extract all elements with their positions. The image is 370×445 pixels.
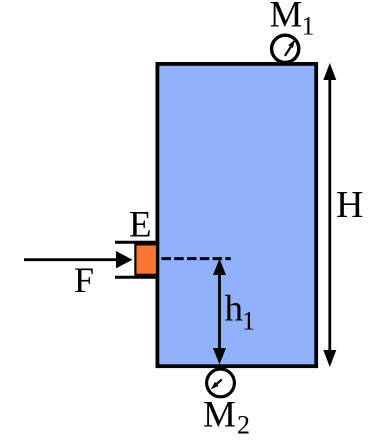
force arrow F (head)	[116, 251, 132, 268]
h1 arrow (shaft)	[218, 270, 221, 353]
svg-text:H: H	[336, 184, 363, 226]
svg-text:M: M	[270, 0, 303, 36]
svg-text:E: E	[129, 205, 152, 246]
gauge M2 needle	[216, 380, 222, 386]
gauge M1 needle	[285, 47, 291, 56]
gauge M2 (circle)	[207, 369, 235, 397]
h1 arrow top head	[213, 259, 226, 276]
h1 arrow bottom head	[213, 348, 226, 365]
force arrow F (shaft)	[24, 258, 119, 261]
svg-text:1: 1	[302, 12, 315, 41]
piston E (orange block)	[135, 244, 157, 274]
dashed water level line	[161, 257, 230, 260]
H arrow (shaft)	[328, 74, 331, 356]
svg-text:h: h	[225, 289, 244, 330]
cylinder bottom wall	[115, 276, 157, 279]
H arrow top head	[323, 63, 336, 80]
cylinder top wall	[115, 241, 157, 244]
svg-text:M: M	[203, 395, 236, 436]
svg-text:F: F	[74, 260, 94, 300]
tank (blue rectangle)	[157, 64, 316, 366]
svg-text:1: 1	[242, 307, 255, 336]
gauge M1 (circle)	[272, 35, 299, 62]
H arrow bottom head	[323, 350, 336, 367]
svg-text:2: 2	[237, 411, 250, 440]
